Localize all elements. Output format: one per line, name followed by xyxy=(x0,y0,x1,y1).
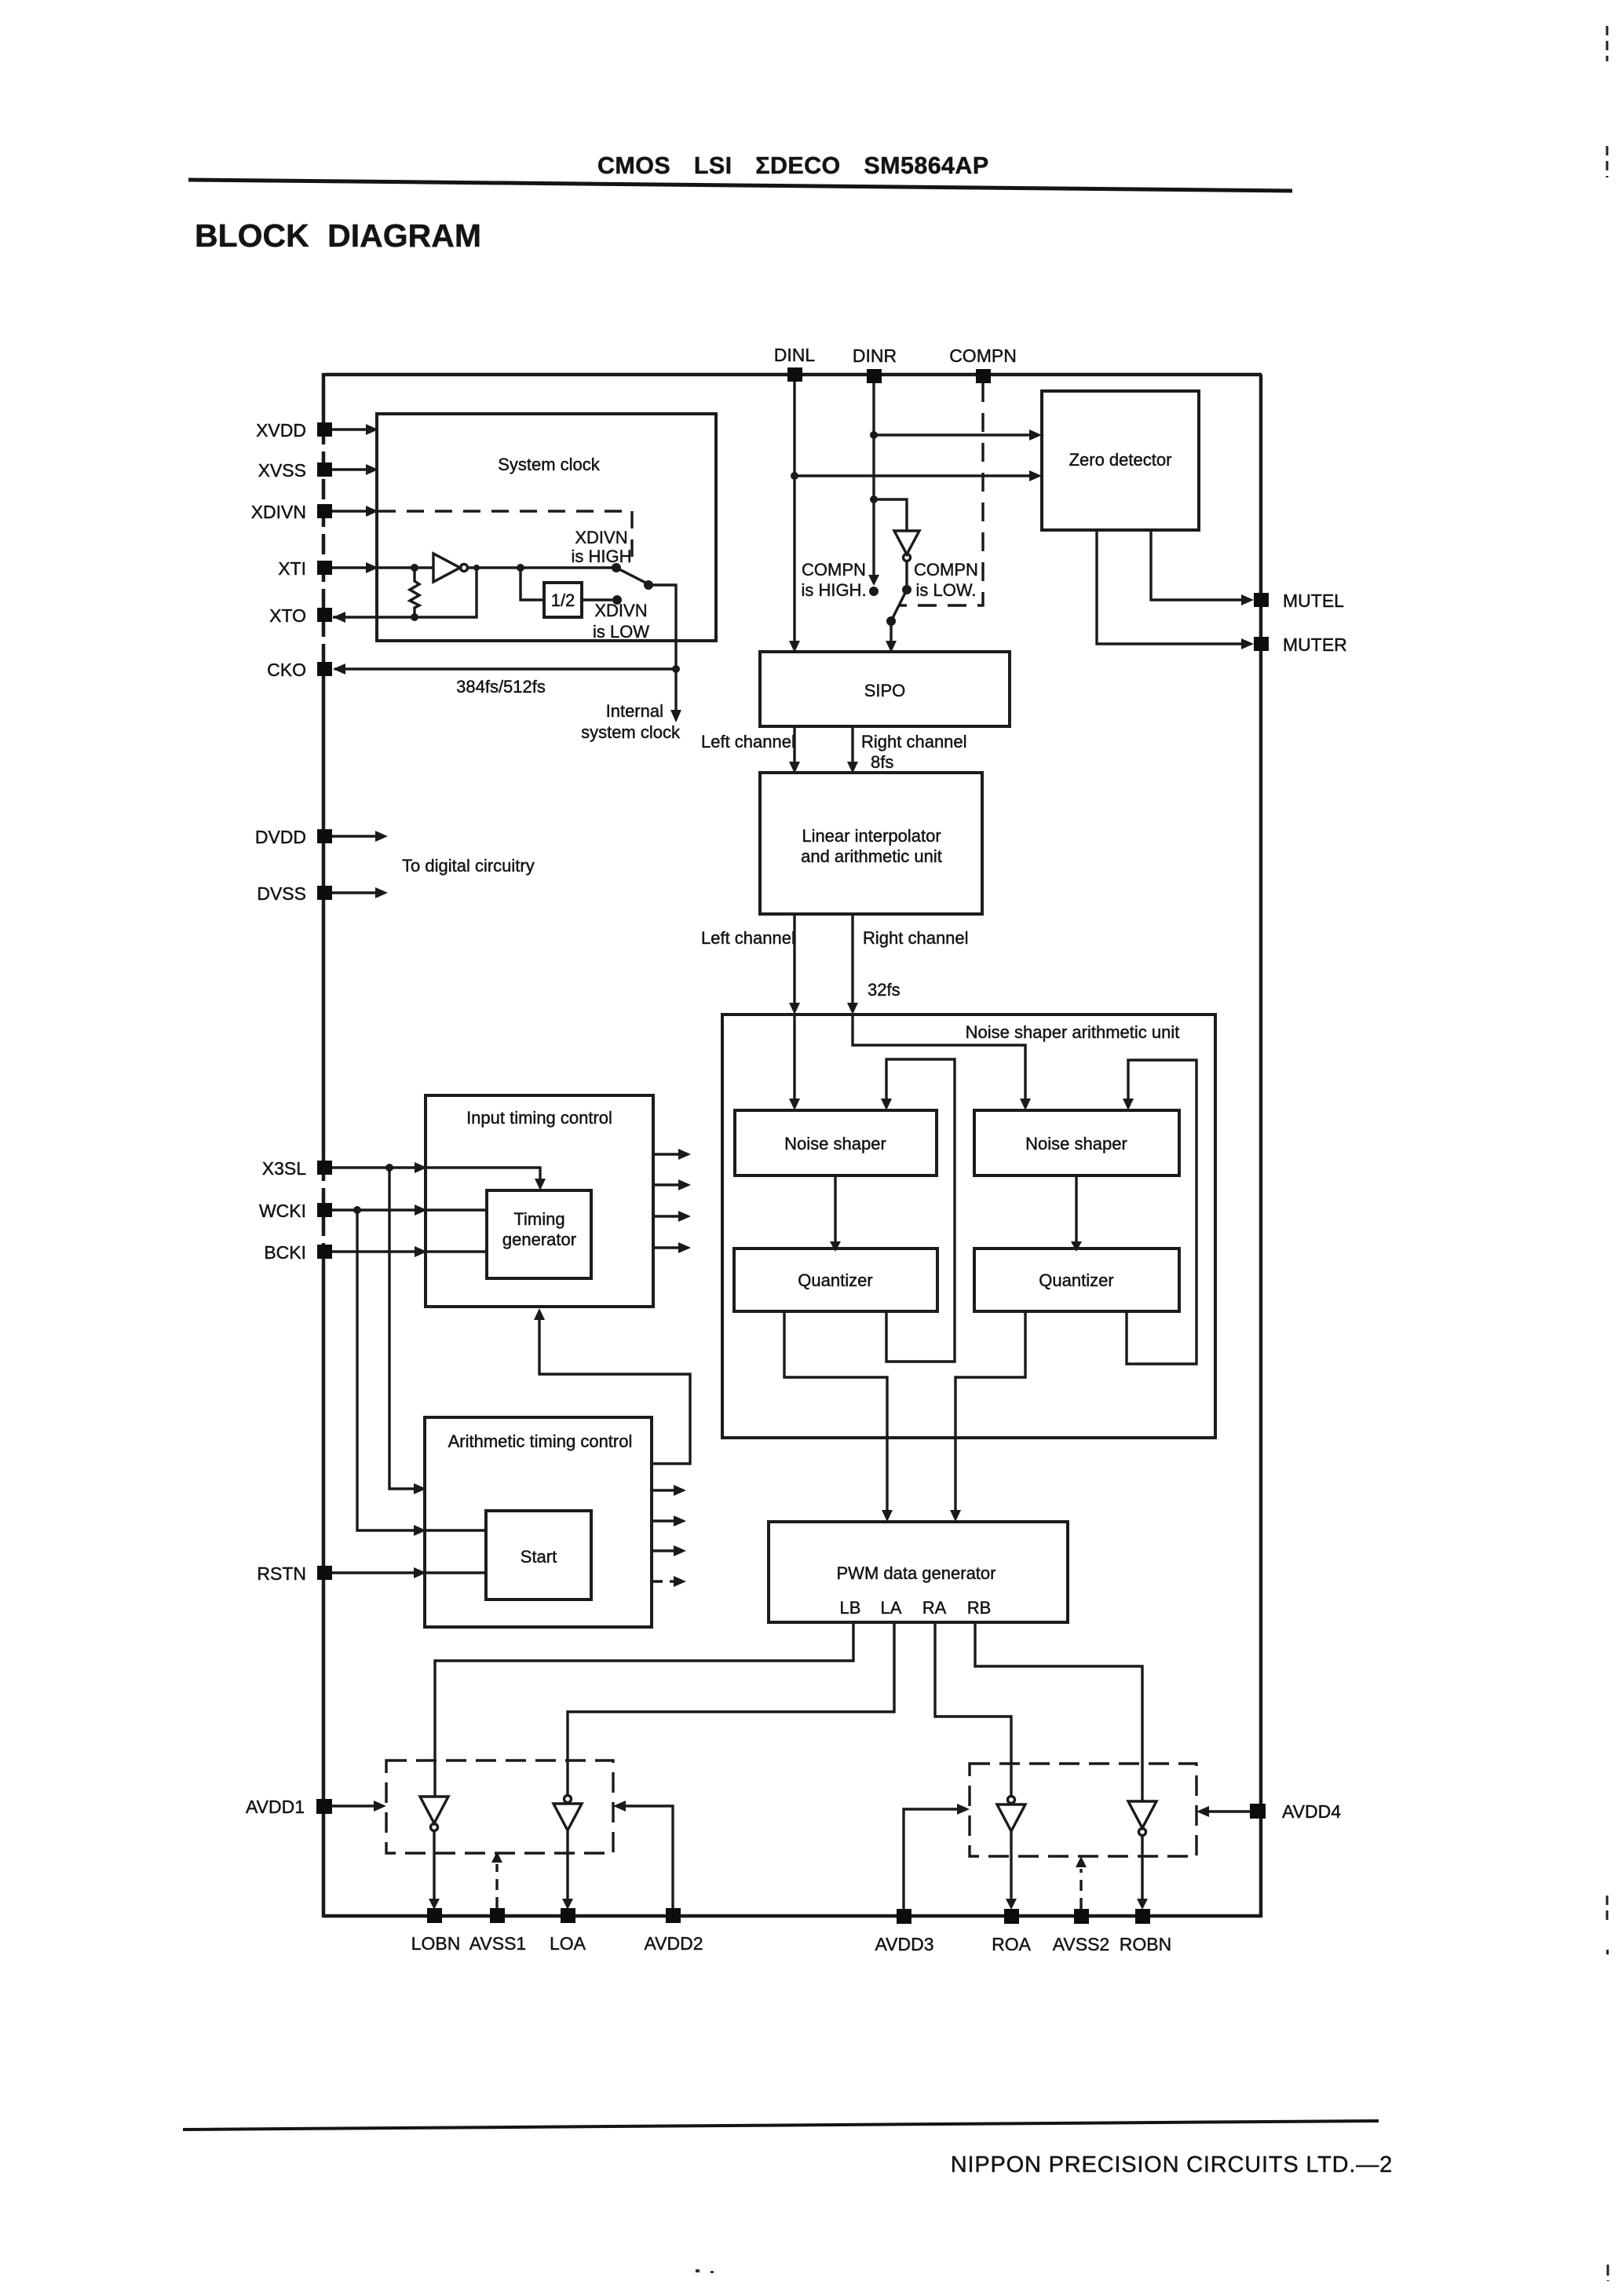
svg-text:LOA: LOA xyxy=(550,1933,586,1954)
svg-text:DINR: DINR xyxy=(853,345,897,366)
svg-text:AVSS2: AVSS2 xyxy=(1053,1934,1109,1954)
wire CKO output xyxy=(334,667,676,670)
pin WCKI xyxy=(259,1201,332,1221)
wire internal system clock xyxy=(648,585,681,722)
wire COMPN dashed control xyxy=(900,383,983,605)
inverter ROBN driver xyxy=(1128,1801,1156,1910)
svg-text:BLOCK DIAGRAM: BLOCK DIAGRAM xyxy=(195,218,481,254)
wire XTI input xyxy=(378,566,433,569)
svg-text:DVDD: DVDD xyxy=(255,827,306,847)
svg-text:ROA: ROA xyxy=(992,1934,1032,1954)
pin COMPN xyxy=(949,345,1017,383)
label XDIVN is LOW xyxy=(593,601,649,642)
svg-text:Noise shaper: Noise shaper xyxy=(1025,1134,1127,1153)
header rule xyxy=(188,180,1292,191)
wire right channel to noise unit xyxy=(847,914,1031,1110)
block Input timing control xyxy=(426,1095,653,1307)
wire DINL branch to zero detector xyxy=(795,470,1042,481)
wire DINL to SIPO xyxy=(789,382,800,653)
wire LA to LOA driver xyxy=(568,1622,894,1794)
svg-text:generator: generator xyxy=(502,1230,576,1249)
svg-text:AVSS1: AVSS1 xyxy=(469,1933,526,1954)
pin AVDD4 xyxy=(1196,1801,1341,1822)
pin ROA xyxy=(992,1909,1032,1954)
svg-text:COMPN: COMPN xyxy=(802,560,866,579)
svg-text:Quantizer: Quantizer xyxy=(798,1270,872,1290)
pin ROBN xyxy=(1120,1909,1171,1954)
svg-text:is LOW.: is LOW. xyxy=(915,580,976,600)
svg-text:XVDD: XVDD xyxy=(256,420,306,441)
pin DVSS xyxy=(257,883,388,904)
svg-text:384fs/512fs: 384fs/512fs xyxy=(456,677,546,696)
block Quantizer L xyxy=(734,1249,937,1311)
svg-text:XTI: XTI xyxy=(278,558,306,579)
wire noise shaper L to quantizer L xyxy=(830,1175,841,1252)
svg-text:RA: RA xyxy=(922,1598,947,1618)
pin XDIVN xyxy=(251,502,378,522)
wire divider output xyxy=(582,595,622,605)
block Quantizer R xyxy=(974,1249,1179,1311)
label XDIVN is HIGH xyxy=(572,528,632,566)
inverter LOA driver xyxy=(553,1796,582,1910)
svg-text:XDIVN: XDIVN xyxy=(251,502,306,522)
wire quantizer R feedback loop xyxy=(1123,1060,1196,1364)
block Timing generator xyxy=(487,1190,591,1278)
wire arithmetic timing outputs xyxy=(652,1485,686,1587)
wire SIPO right channel xyxy=(847,726,858,773)
svg-text:Input timing control: Input timing control xyxy=(466,1108,612,1128)
wire DINR branch to zero detector xyxy=(874,430,1042,441)
svg-text:and arithmetic unit: and arithmetic unit xyxy=(801,846,942,866)
wire noise shaper R to quantizer R xyxy=(1071,1175,1082,1252)
frame left border wire (dashed pin strip) xyxy=(322,424,326,679)
pin AVDD3 xyxy=(875,1804,970,1954)
svg-text:XDIVN: XDIVN xyxy=(594,601,647,620)
svg-text:XVSS: XVSS xyxy=(258,460,306,481)
wire SIPO left channel xyxy=(789,726,800,773)
svg-text:DVSS: DVSS xyxy=(257,883,306,904)
scan artifact dots bottom center xyxy=(696,2269,714,2273)
block Arithmetic timing control xyxy=(425,1417,652,1627)
svg-text:AVDD3: AVDD3 xyxy=(875,1934,934,1954)
block Start xyxy=(486,1511,591,1600)
block System clock xyxy=(377,414,716,641)
wire left channel to noise unit xyxy=(789,914,800,1110)
svg-text:Noise shaper arithmetic unit: Noise shaper arithmetic unit xyxy=(966,1022,1180,1042)
svg-text:MUTER: MUTER xyxy=(1283,634,1347,655)
svg-text:Timing: Timing xyxy=(513,1209,564,1229)
svg-text:AVDD4: AVDD4 xyxy=(1282,1801,1341,1822)
label COMPN is LOW xyxy=(914,560,978,600)
block divider 1/2 xyxy=(544,583,582,617)
inverter COMPN xyxy=(874,499,919,594)
block Linear interpolator xyxy=(760,773,982,914)
block Noise shaper L xyxy=(735,1110,937,1175)
wire oscillator feedback to XTO xyxy=(333,568,477,617)
switch lever SIPO input xyxy=(886,590,907,626)
wire RB to ROBN driver xyxy=(975,1622,1142,1801)
block PWM data generator xyxy=(769,1522,1068,1622)
pin XVDD xyxy=(256,420,378,441)
svg-text:Start: Start xyxy=(521,1547,557,1567)
wire RA to ROA driver xyxy=(935,1622,1011,1795)
pin DVDD xyxy=(255,827,388,847)
wire XDIVN dashed select line xyxy=(378,511,632,563)
block Zero detector xyxy=(1042,391,1199,530)
pin RSTN xyxy=(257,1563,486,1584)
pin CKO xyxy=(267,660,345,680)
svg-text:Linear interpolator: Linear interpolator xyxy=(802,826,941,846)
inverter ROA driver xyxy=(997,1797,1025,1910)
pin AVDD1 xyxy=(246,1797,386,1817)
svg-text:CMOS LSI ΣDECO SM5864AP: CMOS LSI ΣDECO SM5864AP xyxy=(597,152,989,179)
svg-text:NIPPON PRECISION CIRCUITS LTD.: NIPPON PRECISION CIRCUITS LTD.—2 xyxy=(951,2152,1393,2177)
label COMPN is HIGH xyxy=(801,560,866,600)
wire X3SL branch to arithmetic control xyxy=(389,1168,426,1494)
block SIPO xyxy=(760,652,1010,726)
switch lever xyxy=(618,569,653,590)
svg-text:COMPN: COMPN xyxy=(914,560,978,579)
pin DINR xyxy=(853,345,897,383)
svg-text:Noise shaper: Noise shaper xyxy=(784,1134,886,1153)
svg-text:is HIGH: is HIGH xyxy=(572,547,632,566)
wire arithmetic feedback to input timing xyxy=(534,1308,690,1464)
pin DINL xyxy=(774,345,816,382)
pin AVDD2 xyxy=(613,1801,703,1954)
wire input timing outputs xyxy=(653,1149,691,1253)
svg-text:Arithmetic timing control: Arithmetic timing control xyxy=(448,1431,633,1451)
svg-text:is LOW: is LOW xyxy=(593,622,649,642)
svg-text:Zero detector: Zero detector xyxy=(1069,450,1172,470)
svg-text:AVDD1: AVDD1 xyxy=(246,1797,305,1817)
frame bottom border wire xyxy=(323,1914,1261,1918)
block Noise shaper R xyxy=(974,1110,1179,1175)
analog block L dashed box xyxy=(386,1760,613,1853)
svg-text:RSTN: RSTN xyxy=(257,1563,306,1584)
svg-text:LA: LA xyxy=(881,1598,902,1618)
wire WCKI branch to start xyxy=(357,1210,486,1536)
svg-text:RB: RB xyxy=(967,1598,992,1618)
svg-text:MUTEL: MUTEL xyxy=(1283,590,1344,611)
wire LB to LOBN driver xyxy=(435,1622,853,1797)
svg-text:Internal: Internal xyxy=(606,701,663,721)
svg-text:AVDD2: AVDD2 xyxy=(645,1933,703,1954)
frame left border wire (bottom) xyxy=(322,1260,326,1918)
svg-text:LOBN: LOBN xyxy=(411,1933,461,1954)
svg-text:BCKI: BCKI xyxy=(264,1242,306,1263)
wire DINR down xyxy=(868,383,879,596)
pin MUTER xyxy=(1254,634,1347,655)
svg-text:X3SL: X3SL xyxy=(262,1158,306,1179)
svg-text:LB: LB xyxy=(840,1598,861,1618)
footer rule xyxy=(183,2121,1379,2130)
frame left border wire (upper solid) xyxy=(322,373,326,424)
pin X3SL xyxy=(262,1158,332,1179)
frame top border wire xyxy=(325,373,1262,377)
svg-text:To digital circuitry: To digital circuitry xyxy=(402,856,535,876)
block Noise shaper arithmetic unit xyxy=(722,1015,1215,1438)
analog block R dashed box xyxy=(970,1764,1196,1856)
svg-text:is HIGH.: is HIGH. xyxy=(801,580,866,600)
svg-text:8fs: 8fs xyxy=(871,752,893,772)
scan artifact dashes right edge top xyxy=(1606,26,1609,177)
pin XTO xyxy=(269,605,345,626)
wire quantizer L output to PWM xyxy=(784,1311,893,1522)
label Internal system clock xyxy=(581,701,681,742)
wire quantizer R output to PWM xyxy=(950,1311,1025,1522)
svg-text:SIPO: SIPO xyxy=(864,681,906,700)
frame left border wire (dashed near timing pins) xyxy=(322,1161,326,1260)
wire inverter output node xyxy=(468,563,621,572)
wire X3SL input xyxy=(332,1162,546,1190)
pin MUTEL xyxy=(1254,590,1344,611)
svg-text:ROBN: ROBN xyxy=(1120,1934,1171,1954)
pin LOBN xyxy=(411,1908,461,1954)
wire quantizer L feedback loop xyxy=(881,1059,955,1362)
svg-text:XDIVN: XDIVN xyxy=(575,528,627,547)
svg-text:Left channel: Left channel xyxy=(701,928,795,948)
wire BCKI input xyxy=(332,1246,487,1257)
svg-text:PWM data generator: PWM data generator xyxy=(837,1563,996,1583)
inverter oscillator xyxy=(433,554,468,582)
wire into divider xyxy=(521,568,544,600)
svg-text:Right channel: Right channel xyxy=(863,928,969,948)
pin AVSS1 xyxy=(469,1852,526,1954)
svg-text:DINL: DINL xyxy=(774,345,816,365)
svg-text:system clock: system clock xyxy=(581,722,681,742)
svg-text:XTO: XTO xyxy=(269,605,306,626)
svg-text:Quantizer: Quantizer xyxy=(1039,1270,1113,1290)
frame right border wire xyxy=(1259,375,1263,1918)
svg-text:WCKI: WCKI xyxy=(259,1201,306,1221)
resistor feedback xyxy=(410,564,419,621)
scan artifact dashes right edge bottom xyxy=(1606,1896,1609,2281)
wire zero detector to MUTEL xyxy=(1151,530,1254,605)
wire zero detector to MUTER xyxy=(1097,530,1254,649)
svg-text:System clock: System clock xyxy=(498,455,601,474)
inverter LOBN driver xyxy=(420,1797,448,1910)
wire WCKI input xyxy=(332,1205,487,1216)
frame left border wire (lower) xyxy=(322,679,326,1161)
pin XTI xyxy=(278,558,378,579)
svg-text:Left channel: Left channel xyxy=(701,732,795,751)
svg-text:Right channel: Right channel xyxy=(861,732,967,751)
svg-text:CKO: CKO xyxy=(267,660,306,680)
svg-text:32fs: 32fs xyxy=(868,980,901,1000)
pin AVSS2 xyxy=(1053,1856,1109,1954)
pin LOA xyxy=(550,1908,586,1954)
svg-text:COMPN: COMPN xyxy=(949,345,1017,366)
wire switch to SIPO xyxy=(886,621,897,653)
svg-text:1/2: 1/2 xyxy=(551,590,575,610)
pin XVSS xyxy=(258,460,378,481)
pin BCKI xyxy=(264,1242,332,1263)
